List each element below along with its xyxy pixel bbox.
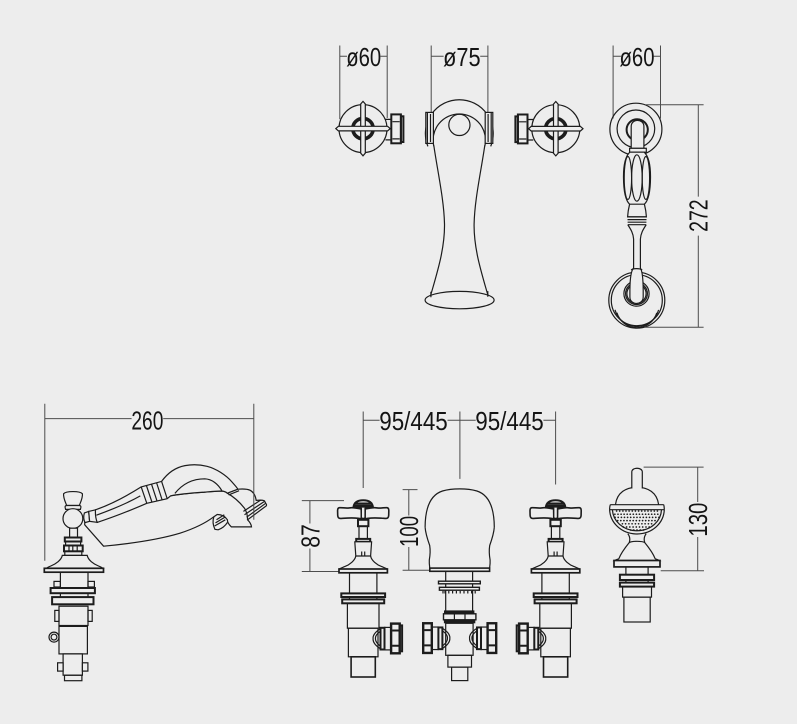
- valve body below deck: [49, 606, 92, 681]
- threaded shank below deck: [51, 572, 95, 604]
- handshower top view: [609, 103, 665, 328]
- svg-text:95/445: 95/445: [379, 406, 448, 436]
- spout aerator rings: [243, 500, 265, 517]
- deck bell flange (side view): [44, 555, 103, 572]
- handshower ferrule rings (side): [141, 481, 167, 503]
- cradle joint: [629, 541, 645, 542]
- dimension ø75: [431, 42, 488, 112]
- handshower front: [610, 468, 665, 622]
- spout small nozzle under tip: [213, 515, 227, 530]
- spout front bottom: [425, 489, 494, 681]
- dimension 130: [644, 467, 714, 571]
- dimension 260: [45, 404, 254, 561]
- dimension ø60 right: [613, 42, 660, 119]
- spray face dots: [614, 510, 660, 531]
- spout front top: [425, 100, 494, 309]
- dimension 87: [295, 501, 344, 572]
- valve front right outlet: [517, 624, 546, 654]
- spout body side: [85, 489, 267, 546]
- handle stem + cartridge: [64, 528, 83, 555]
- valve front left outlet: [373, 624, 402, 654]
- dimension ø60 top-left: [340, 42, 387, 119]
- svg-text:ø60: ø60: [620, 42, 655, 72]
- spout aerator cut boundary: [227, 493, 247, 520]
- svg-text:ø75: ø75: [443, 42, 481, 72]
- svg-text:95/445: 95/445: [475, 406, 544, 436]
- handshower assembly (side, lying on spout): [95, 465, 237, 523]
- handle knob (side): [64, 492, 83, 510]
- svg-text:272: 272: [684, 199, 714, 232]
- valve top view right: [515, 102, 583, 156]
- valve front right: [530, 500, 581, 677]
- svg-text:130: 130: [683, 503, 713, 537]
- valve front left: [338, 500, 389, 677]
- handshower head face band (side): [229, 491, 240, 495]
- dimension 95/445 left: [363, 406, 460, 488]
- handshower head inner cone (side): [175, 479, 222, 494]
- dimension 272: [644, 105, 714, 327]
- spout outlets left+right: [423, 623, 450, 653]
- svg-text:87: 87: [295, 524, 325, 548]
- svg-text:100: 100: [394, 516, 424, 547]
- valve top view left: [336, 101, 404, 155]
- handle ball: [63, 509, 83, 529]
- handshower grip end nut (side): [84, 510, 97, 523]
- svg-text:ø60: ø60: [346, 42, 381, 72]
- dimension 100: [394, 490, 429, 571]
- svg-text:260: 260: [131, 405, 163, 435]
- dimension 95/445 right: [460, 406, 556, 485]
